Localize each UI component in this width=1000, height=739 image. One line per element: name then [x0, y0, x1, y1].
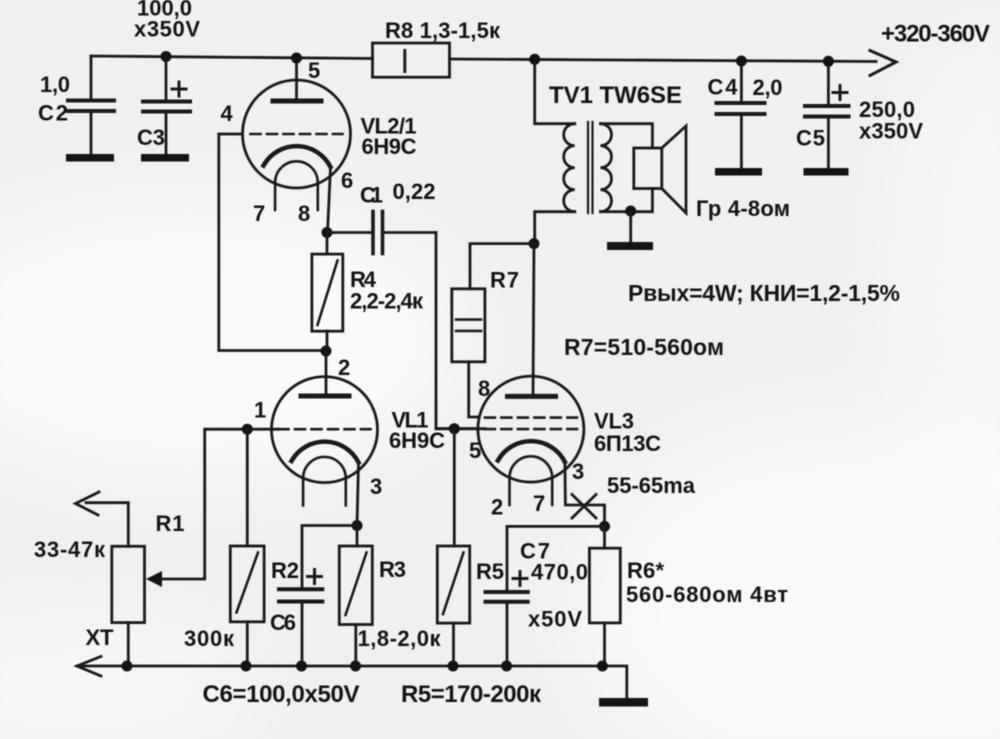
svg-text:1,0: 1,0	[40, 72, 70, 97]
node VL2 anode junction	[291, 53, 302, 64]
node C3 top junction	[161, 51, 172, 62]
resistor R2	[230, 429, 264, 666]
svg-text:33-47к: 33-47к	[34, 537, 106, 562]
svg-text:R7: R7	[490, 268, 519, 293]
capacitor C2	[66, 56, 114, 162]
node rail TV1 junction	[529, 54, 540, 65]
svg-text:x350V: x350V	[859, 119, 923, 144]
resistor R7	[452, 244, 534, 417]
transformer TV1 primary	[564, 124, 575, 212]
wire +V arrow head	[870, 51, 896, 76]
resistor R5	[437, 546, 469, 666]
node C5 junction	[823, 56, 834, 67]
svg-text:7: 7	[533, 491, 545, 516]
svg-text:3: 3	[572, 459, 584, 484]
svg-text:C1: C1	[360, 183, 383, 208]
potentiometer R1	[86, 503, 145, 666]
resistor R6	[589, 526, 620, 666]
svg-text:XT: XT	[86, 625, 115, 650]
svg-text:R8 1,3-1,5к: R8 1,3-1,5к	[385, 18, 501, 43]
svg-text:x350V: x350V	[134, 17, 200, 42]
svg-text:5: 5	[469, 438, 481, 463]
svg-text:Гр 4-8ом: Гр 4-8ом	[696, 196, 790, 221]
svg-text:2: 2	[491, 495, 503, 520]
svg-text:1: 1	[254, 398, 266, 423]
node rail R1	[122, 661, 133, 672]
svg-text:6П13С: 6П13С	[594, 431, 661, 456]
wire VL1 pin3 cathode down	[357, 463, 359, 526]
node rail C6	[296, 661, 307, 672]
wire top supply rail	[91, 56, 876, 62]
wire VL3 grid junction	[436, 427, 485, 430]
wire VL2 pin4 to VL1 anode	[219, 134, 326, 351]
svg-text:R7=510-560ом: R7=510-560ом	[564, 334, 724, 360]
svg-text:4: 4	[221, 101, 234, 126]
resistor R4	[312, 233, 343, 351]
node speaker ground junction	[625, 206, 636, 217]
ground speaker	[607, 242, 653, 250]
capacitor C4	[715, 61, 765, 176]
svg-text:8: 8	[478, 376, 490, 401]
svg-text:8: 8	[298, 201, 310, 226]
wire VL1 pin1 grid left	[160, 429, 279, 579]
transformer core	[588, 122, 593, 213]
wire bottom rail	[77, 666, 627, 697]
svg-text:2,0: 2,0	[753, 75, 783, 100]
wire VL3 grid to R5	[453, 429, 456, 546]
node C1/R4 junction	[322, 227, 333, 238]
node VL1 cathode junction	[352, 520, 363, 531]
node VL3 anode / R7 junction	[529, 238, 540, 249]
bottom rail left arrow	[77, 657, 101, 677]
node rail R6	[597, 661, 608, 672]
wire VL3 cathode to current break	[565, 462, 605, 526]
node VL3 grid junction	[449, 423, 460, 434]
wire TV1 primary bottom to VL3 anode	[535, 212, 575, 244]
svg-text:C4: C4	[708, 75, 739, 100]
capacitor C1	[327, 212, 436, 254]
node VL1 pin1 junction	[242, 424, 253, 435]
svg-text:TV1 TW6SE: TV1 TW6SE	[549, 82, 682, 109]
R1 input arrow	[76, 492, 100, 515]
capacitor C3	[141, 57, 190, 162]
node rail C7	[501, 661, 512, 672]
tube VL1	[272, 351, 378, 506]
svg-text:6: 6	[341, 168, 353, 193]
svg-text:R6*: R6*	[627, 558, 664, 583]
svg-text:Рвых=4W; КНИ=1,2-1,5%: Рвых=4W; КНИ=1,2-1,5%	[628, 280, 900, 306]
svg-text:C5: C5	[796, 126, 825, 151]
wire VL2 pin6 cathode down	[328, 167, 331, 233]
svg-text:6Н9С: 6Н9С	[362, 134, 417, 159]
svg-text:x50V: x50V	[528, 607, 582, 632]
svg-text:+320-360V: +320-360V	[881, 21, 990, 48]
svg-text:1,8-2,0к: 1,8-2,0к	[358, 626, 442, 651]
current break X	[572, 495, 596, 519]
node R4 bottom / VL1 anode	[321, 346, 332, 357]
tube VL2/1	[243, 58, 351, 210]
wire TV1 primary feed from rail	[535, 59, 575, 123]
capacitor C5	[804, 61, 849, 175]
svg-text:C3: C3	[137, 125, 165, 150]
svg-text:VL3: VL3	[594, 409, 634, 434]
svg-text:2,2-2,4к: 2,2-2,4к	[350, 289, 424, 314]
svg-text:C2: C2	[38, 101, 68, 126]
capacitor C7	[486, 526, 605, 666]
svg-text:R1: R1	[156, 511, 185, 536]
resistor R3	[339, 526, 372, 667]
R1 wiper arrow	[146, 571, 162, 587]
wire secondary bottom to speaker	[601, 189, 653, 212]
svg-text:2: 2	[338, 355, 350, 380]
wire to speaker ground	[629, 211, 632, 242]
svg-text:5: 5	[308, 58, 320, 83]
ground bottom	[599, 698, 648, 707]
svg-text:R5: R5	[476, 559, 504, 584]
wire secondary top to speaker	[601, 124, 653, 148]
svg-text:300к: 300к	[184, 626, 235, 651]
resistor R8	[373, 43, 450, 77]
svg-text:R3: R3	[379, 557, 406, 582]
svg-text:R5=170-200к: R5=170-200к	[401, 681, 542, 708]
svg-text:560-680ом 4вт: 560-680ом 4вт	[626, 582, 788, 607]
wire C1 to VL3 grid	[436, 233, 478, 429]
speaker Гр	[634, 126, 686, 213]
svg-text:0,22: 0,22	[393, 179, 436, 204]
svg-text:R2: R2	[271, 558, 299, 583]
capacitor C6	[279, 526, 357, 667]
svg-text:3: 3	[370, 474, 382, 499]
svg-text:C6=100,0x50V: C6=100,0x50V	[203, 681, 360, 708]
node rail R2	[241, 661, 252, 672]
node rail R5	[448, 661, 459, 672]
tube VL3	[478, 376, 584, 505]
node cathode C7/R6 junction	[599, 521, 610, 532]
transformer TV1 secondary	[601, 124, 612, 212]
svg-text:55-65ma: 55-65ma	[607, 473, 696, 498]
svg-text:C6: C6	[270, 610, 296, 635]
node C4 junction	[736, 56, 747, 67]
svg-text:7: 7	[253, 201, 265, 226]
svg-text:470,0: 470,0	[531, 560, 588, 585]
wire VL3 anode down	[533, 244, 534, 397]
svg-text:6Н9С: 6Н9С	[389, 428, 445, 453]
node rail R3	[350, 661, 361, 672]
